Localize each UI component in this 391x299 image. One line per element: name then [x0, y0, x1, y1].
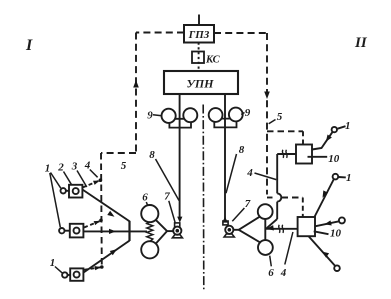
sensor 3: body [70, 268, 83, 280]
dashed bus: sensor column vertical [100, 153, 103, 267]
break mark on valve10a lead [282, 150, 287, 158]
svg-text:9: 9 [147, 110, 153, 122]
svg-text:II: II [354, 35, 368, 51]
label pointer 1 lower right [339, 176, 346, 178]
block KS [192, 52, 204, 64]
wire bar to bellows [130, 230, 148, 232]
label pointer 1 upper right [338, 126, 346, 129]
gauges 9 right [209, 108, 243, 128]
svg-text:1: 1 [45, 163, 51, 175]
svg-text:7: 7 [245, 198, 251, 210]
break mark on wire to valve 10b [279, 225, 284, 233]
label 4 right upper + pointer [246, 167, 276, 180]
dashed bus: left vertical [135, 33, 137, 154]
sensor 1: nozzle circle [61, 188, 66, 193]
svg-text:КС: КС [205, 55, 221, 66]
label 1 bottom left + pointer [50, 257, 63, 273]
dashed branch to valve 10b [267, 198, 303, 218]
link to top chamber right [239, 217, 260, 230]
svg-text:I: I [25, 37, 33, 54]
valve 10b [298, 217, 315, 236]
wire: stub above GPZ [198, 15, 200, 26]
svg-text:1: 1 [346, 172, 352, 184]
svg-text:6: 6 [268, 267, 274, 279]
label 7 left + pointer [164, 191, 175, 223]
pointer 1 to sensor1 nozzle [51, 173, 61, 189]
arrow down on right dashed bus [264, 92, 270, 100]
summing bar [128, 221, 130, 241]
wire 4: vertical with hop over dashed [267, 154, 282, 228]
wire junction to valve 10b [265, 225, 297, 231]
label pointer 10a [308, 156, 328, 158]
regulator 7 right [223, 221, 234, 237]
sensor 2: body [70, 224, 84, 238]
nozzle lower right [309, 236, 340, 271]
nozzle middle right [315, 217, 345, 226]
pointer 3 to sensor1 corner [77, 171, 87, 188]
label 8 right + pointer [226, 144, 245, 193]
link to regulator 7 [167, 230, 174, 232]
nozzle 1 lower right [315, 174, 339, 217]
centerline (axis) [202, 105, 205, 292]
wire 4: valve10a lead [277, 153, 296, 155]
dashed bus: GPZ left horizontal [136, 32, 184, 34]
wire 8 left (UPN to regulator) [177, 94, 182, 223]
sensor 3: link [68, 274, 71, 276]
regulator 7 left [172, 223, 182, 238]
svg-text:10: 10 [330, 228, 342, 240]
wire sensor2 to summing bar [83, 229, 129, 234]
gauges 9 left [162, 108, 198, 127]
block GPZ [184, 25, 214, 43]
wire 8 right (regulator to UPN) [222, 94, 227, 223]
svg-text:5: 5 [277, 111, 283, 123]
wire sensor1 to summing bar [82, 190, 129, 222]
svg-text:ГПЗ: ГПЗ [188, 29, 210, 41]
svg-text:4: 4 [280, 267, 287, 279]
dashed bus: GPZ right horizontal [214, 32, 267, 34]
nozzle 1 upper right [312, 127, 337, 150]
svg-text:6: 6 [142, 192, 148, 204]
dashed branch sensor3 to bus [84, 265, 101, 270]
sensor 1: link [66, 190, 69, 192]
node: junction dot 3 [100, 265, 104, 269]
bellows 6 left: bottom chamber [141, 241, 158, 258]
wire sensor3 to summing bar [83, 241, 129, 273]
bellows 6 left: top chamber [141, 205, 158, 222]
svg-text:8: 8 [149, 149, 155, 161]
sensor 3: nozzle circle [62, 272, 67, 277]
dashed bus: right vertical [266, 33, 268, 195]
dashed branch to valve 10a [267, 131, 303, 144]
arrow up on left dashed bus [133, 80, 139, 88]
link bottom chamber to regulator 7 [156, 231, 167, 243]
label 9 right + pointer [241, 107, 251, 119]
wire: dotted link GPZ-KS-UPN [198, 43, 200, 72]
spring between chambers [147, 222, 153, 242]
dashed branch sensor2 to bus [84, 219, 101, 228]
label 8 left + pointer [149, 149, 179, 201]
bellows 6 right: bottom chamber [258, 240, 273, 255]
label row 1 2 3 4 [45, 160, 91, 175]
sensor 2: link [65, 230, 70, 232]
svg-text:4: 4 [246, 167, 253, 179]
node: junction dot 1 [99, 178, 103, 182]
svg-text:УПН: УПН [186, 77, 214, 91]
label pointer 10b [314, 231, 329, 234]
block UPN [164, 71, 238, 94]
label 5 right + pointer [269, 111, 283, 124]
link regulator 7 right to bellows [233, 229, 238, 231]
pointer 4 to dashed branch [90, 170, 98, 178]
svg-text:9: 9 [245, 107, 251, 119]
label 4 right lower + pointer [280, 232, 293, 279]
dashed bus: jog to sensor bus [101, 152, 136, 154]
node: junction dot 2 [99, 219, 103, 223]
bellows 6 right: top chamber [258, 204, 273, 219]
svg-text:1: 1 [345, 120, 351, 132]
svg-text:10: 10 [328, 153, 340, 165]
svg-text:1: 1 [50, 257, 56, 269]
sensor 1: body [69, 185, 82, 198]
pointer 2 to sensor1 [64, 172, 72, 185]
valve 10a [296, 145, 312, 164]
sensor 2: nozzle circle [59, 228, 64, 233]
link top chamber to regulator 7 [156, 220, 167, 231]
dashed branch sensor1 to bus [83, 179, 101, 188]
link to bottom chamber right [239, 230, 260, 243]
label 7 right + pointer [232, 198, 250, 221]
label 9 left + pointer [147, 110, 161, 122]
svg-text:5: 5 [121, 160, 127, 172]
label 6 left + pointer [142, 192, 148, 206]
svg-text:8: 8 [239, 144, 245, 156]
pointer 1 to sensor2 nozzle [50, 173, 61, 227]
link between right chambers [264, 219, 266, 240]
label 6 right + pointer [268, 256, 274, 279]
